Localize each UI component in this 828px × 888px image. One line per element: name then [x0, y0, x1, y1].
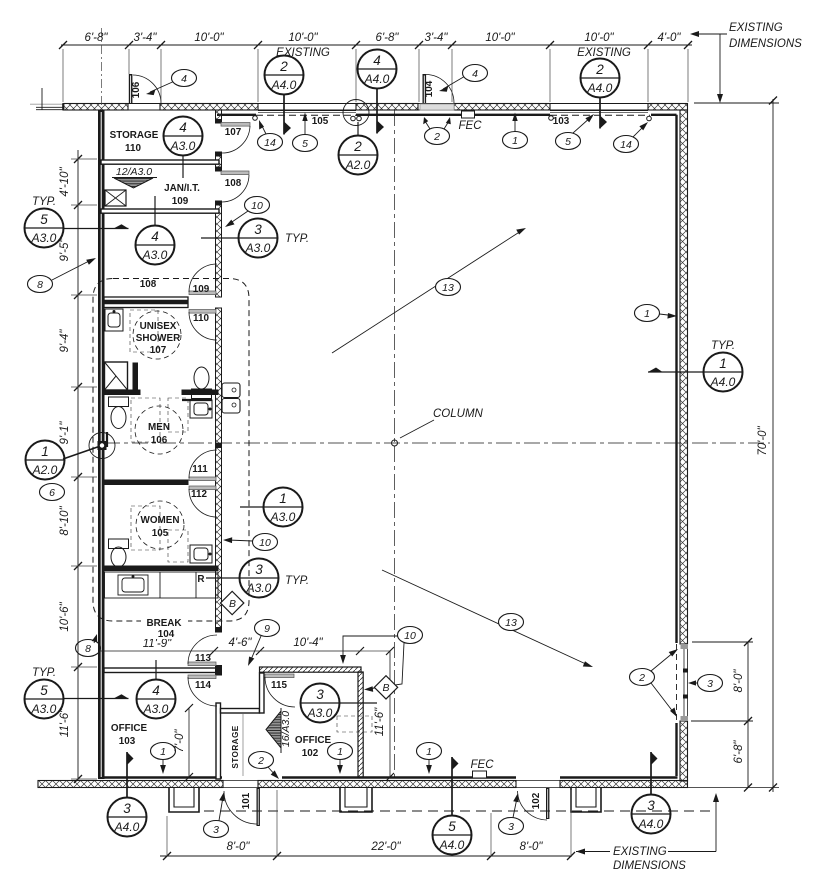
callout 3/A3.0 hallway typ	[201, 219, 309, 258]
top wall existing: outline lines full width	[63, 103, 688, 105]
centerline vertical through column	[394, 110, 396, 779]
wall women/break	[104, 566, 218, 571]
top dimension ticks	[59, 41, 692, 49]
left dimension line	[77, 150, 79, 780]
svg-text:109: 109	[172, 196, 189, 207]
svg-text:A4.0: A4.0	[710, 375, 736, 389]
svg-text:4'-0": 4'-0"	[658, 32, 682, 44]
svg-text:10'-0": 10'-0"	[194, 32, 224, 44]
callout 4/A3.0 jan	[136, 196, 175, 265]
svg-text:TYP.: TYP.	[32, 196, 56, 208]
svg-text:107: 107	[150, 345, 167, 356]
office102 east wall (existing)	[358, 672, 363, 777]
svg-text:2: 2	[638, 672, 645, 684]
men urinal screen	[106, 432, 108, 447]
svg-text:8'-0": 8'-0"	[733, 669, 745, 693]
svg-text:102: 102	[531, 792, 542, 809]
office102 north wall (existing, lintel over door 115)	[260, 667, 362, 672]
interior dims: 11'-9 / 4'-6 / 10'-4 line	[99, 650, 361, 652]
svg-text:A3.0: A3.0	[246, 581, 272, 595]
door 110 (swings down into shower)	[189, 310, 217, 341]
EWC drinking fountains	[222, 383, 240, 413]
callout 3/A3.0 office102	[301, 684, 378, 723]
svg-text:104: 104	[424, 80, 435, 97]
svg-text:A2.0: A2.0	[32, 463, 58, 477]
keynote 1 office102	[328, 743, 353, 775]
svg-text:4: 4	[472, 68, 478, 80]
svg-text:1: 1	[426, 746, 432, 758]
svg-text:A4.0: A4.0	[439, 838, 465, 852]
svg-text:106: 106	[151, 435, 168, 446]
break counter with sink	[105, 572, 219, 598]
svg-text:UNISEX: UNISEX	[140, 321, 177, 332]
svg-text:BREAK: BREAK	[146, 618, 182, 629]
women sink	[190, 545, 212, 563]
svg-text:10'-0": 10'-0"	[485, 32, 515, 44]
svg-text:A3.0: A3.0	[31, 231, 57, 245]
svg-text:8: 8	[37, 279, 43, 291]
keynote 8 lower left wall	[76, 634, 101, 657]
svg-text:FEC: FEC	[459, 120, 483, 132]
svg-text:5: 5	[40, 683, 48, 698]
elevation marker 12/A3.0	[112, 166, 157, 188]
nook shelf line	[242, 714, 244, 776]
svg-text:9'-5": 9'-5"	[59, 238, 71, 262]
svg-text:4: 4	[179, 120, 187, 135]
svg-text:R: R	[197, 574, 204, 585]
svg-text:14: 14	[264, 137, 276, 149]
top dimension texts	[85, 32, 682, 59]
callout 3/A3.0 break typ	[206, 559, 309, 598]
svg-text:115: 115	[271, 680, 287, 691]
keynote 2 nook	[249, 752, 280, 780]
svg-text:10'-6": 10'-6"	[59, 601, 71, 631]
svg-text:TYP.: TYP.	[285, 575, 309, 587]
svg-text:A3.0: A3.0	[307, 706, 333, 720]
svg-text:14: 14	[620, 139, 632, 151]
svg-text:11'-6": 11'-6"	[374, 707, 386, 736]
svg-text:3: 3	[213, 824, 219, 836]
svg-text:OFFICE: OFFICE	[111, 723, 148, 734]
svg-text:8'-0": 8'-0"	[520, 841, 544, 853]
wall break/office103 (doors 113/114)	[104, 666, 222, 676]
callout 5/A4.0 bottom middle	[433, 757, 472, 855]
pilaster right	[571, 788, 601, 812]
svg-text:2: 2	[595, 62, 604, 77]
office 103 dim 7'-0"	[188, 708, 190, 778]
svg-text:1: 1	[337, 746, 343, 758]
svg-text:EXISTING: EXISTING	[729, 22, 783, 34]
svg-text:4: 4	[373, 53, 381, 68]
svg-text:4: 4	[181, 73, 187, 85]
svg-text:22'-0": 22'-0"	[370, 841, 401, 853]
door 104 (top wall, swings out)	[420, 74, 454, 110]
office 102 dim 11'-6"	[344, 651, 390, 778]
svg-text:1: 1	[279, 491, 287, 506]
svg-text:A4.0: A4.0	[587, 81, 613, 95]
svg-text:TYP.: TYP.	[32, 667, 56, 679]
svg-text:A3.0: A3.0	[143, 702, 169, 716]
wall hallway/shower (plumbing wall)	[104, 297, 188, 308]
svg-text:6'-8": 6'-8"	[733, 740, 745, 764]
svg-text:111: 111	[192, 464, 208, 475]
svg-text:1: 1	[512, 135, 518, 147]
svg-text:5: 5	[448, 819, 456, 834]
svg-text:A3.0: A3.0	[245, 241, 271, 255]
svg-text:WOMEN: WOMEN	[141, 515, 180, 526]
callout 2/A4.0 top right	[581, 59, 620, 129]
keynote 3 right opening	[688, 675, 723, 692]
svg-text:8: 8	[85, 643, 91, 655]
svg-text:4'-6": 4'-6"	[229, 637, 253, 649]
right opening dimensions 8'-0 / 6'-8	[691, 642, 753, 788]
svg-text:108: 108	[140, 279, 157, 290]
toilet block east wall (existing hatched)	[215, 110, 222, 632]
svg-text:STORAGE: STORAGE	[110, 130, 159, 141]
svg-text:104: 104	[158, 629, 175, 640]
svg-text:TYP.: TYP.	[285, 233, 309, 245]
storage nook north wall	[221, 709, 260, 714]
svg-text:1: 1	[644, 308, 650, 320]
door 101 (bottom wall, swings out)	[224, 788, 260, 826]
svg-text:70'-0": 70'-0"	[757, 425, 769, 455]
svg-text:9: 9	[264, 623, 270, 635]
svg-text:3: 3	[647, 798, 655, 813]
callout 5/A3.0 left lower typ	[25, 667, 129, 719]
bottom dimension line	[160, 855, 572, 857]
shower room toilet	[182, 367, 212, 400]
right 70 ft dimension	[688, 99, 779, 792]
bottom extension lines	[167, 790, 571, 856]
svg-text:DIMENSIONS: DIMENSIONS	[729, 38, 802, 50]
svg-text:109: 109	[193, 284, 210, 295]
svg-text:A4.0: A4.0	[638, 817, 664, 831]
keynote 4 door104	[439, 65, 488, 92]
svg-text:OFFICE: OFFICE	[295, 735, 332, 746]
keynote 4 door106	[146, 70, 197, 96]
svg-text:3: 3	[508, 821, 514, 833]
FEC top	[459, 111, 483, 132]
svg-text:EXISTING: EXISTING	[276, 47, 330, 59]
door 108	[221, 171, 249, 202]
callout 2/A4.0 top	[265, 56, 304, 135]
dashed maneuvering circles	[133, 311, 184, 549]
svg-text:106: 106	[131, 81, 142, 98]
callout 4/A4.0 top	[358, 50, 397, 134]
door 113 (swings up into break)	[188, 635, 217, 666]
centerline horizontal through column	[104, 442, 770, 444]
men toilet	[109, 397, 129, 429]
svg-text:13: 13	[442, 282, 454, 294]
storefront 105 glazing	[253, 111, 362, 121]
svg-text:112: 112	[191, 489, 207, 500]
wall shower/men partial	[104, 390, 218, 395]
svg-text:5: 5	[302, 138, 308, 150]
wall men/women	[104, 480, 188, 485]
callout 3/A4.0 bottom left	[108, 752, 147, 837]
svg-text:6'-8": 6'-8"	[376, 32, 400, 44]
svg-text:103: 103	[553, 116, 570, 127]
right wall opening (existing storefront)	[677, 644, 689, 721]
svg-text:A3.0: A3.0	[170, 139, 196, 153]
keynote 1 office103	[151, 743, 176, 775]
keynote 8 upper left wall	[28, 258, 97, 293]
office102 west wall	[260, 673, 265, 713]
svg-text:3: 3	[316, 687, 324, 702]
door 112 (swings down into women)	[189, 486, 217, 517]
svg-text:10: 10	[251, 200, 263, 212]
interior face thick line along top wall	[98, 115, 678, 778]
FEC bottom	[471, 759, 495, 778]
left dimension texts (rotated)	[59, 166, 71, 737]
pilaster middle	[340, 788, 372, 812]
svg-text:110: 110	[125, 143, 141, 154]
svg-text:3: 3	[123, 801, 131, 816]
svg-text:A3.0: A3.0	[270, 510, 296, 524]
keynote 3 door102	[499, 793, 524, 835]
svg-text:MEN: MEN	[148, 422, 170, 433]
keynote 2 right opening	[630, 649, 679, 717]
svg-text:10'-0": 10'-0"	[584, 32, 614, 44]
svg-text:A4.0: A4.0	[271, 78, 297, 92]
keynote 9 vestibule	[248, 620, 280, 667]
left extension lines	[71, 159, 97, 779]
svg-text:A2.0: A2.0	[345, 158, 371, 172]
column symbol	[392, 440, 398, 446]
svg-text:A3.0: A3.0	[142, 248, 168, 262]
svg-text:2: 2	[353, 139, 362, 154]
svg-text:3'-4": 3'-4"	[425, 32, 449, 44]
men sink	[190, 400, 212, 418]
door 109 (swings up into hallway)	[189, 264, 217, 295]
svg-text:102: 102	[302, 748, 319, 759]
door 107	[221, 123, 250, 154]
svg-text:6: 6	[49, 487, 55, 499]
svg-text:A3.0: A3.0	[31, 702, 57, 716]
svg-text:DIMENSIONS: DIMENSIONS	[613, 860, 686, 872]
svg-text:5: 5	[565, 136, 571, 148]
left exterior wall (new, solid)	[98, 110, 105, 779]
svg-text:8'-10": 8'-10"	[59, 505, 71, 535]
svg-text:3: 3	[255, 562, 263, 577]
dashed line below bottom wall	[204, 810, 716, 812]
svg-text:12/A3.0: 12/A3.0	[116, 166, 152, 178]
diamond B break	[220, 591, 243, 614]
svg-text:7'-0": 7'-0"	[174, 729, 186, 753]
svg-text:9'-1": 9'-1"	[59, 421, 71, 445]
svg-text:EXISTING: EXISTING	[613, 846, 667, 858]
top extension lines	[63, 28, 688, 109]
svg-text:2: 2	[279, 59, 288, 74]
callout 1/A3.0	[240, 488, 303, 527]
keynote 13 upper arrow	[332, 228, 526, 353]
svg-text:10'-0": 10'-0"	[288, 32, 318, 44]
callout 4/A3.0 storage	[164, 117, 203, 179]
keynote 1 storefront103	[503, 113, 528, 149]
callout 1/A4.0 right typ	[648, 340, 743, 392]
svg-text:A4.0: A4.0	[364, 72, 390, 86]
right exterior wall (existing, hatched)	[680, 110, 688, 781]
jan mop sink	[105, 190, 126, 206]
svg-text:FEC: FEC	[471, 759, 495, 771]
svg-text:10: 10	[259, 537, 271, 549]
svg-text:107: 107	[225, 127, 242, 138]
svg-text:4: 4	[152, 683, 160, 698]
keynote 13 lower arrow	[382, 570, 593, 667]
keynote 1 bottom wall	[417, 743, 442, 775]
callout 3/A4.0 bottom right	[632, 752, 671, 834]
existing dimensions note bottom right	[576, 793, 719, 872]
svg-text:COLUMN: COLUMN	[433, 408, 484, 420]
svg-text:16/A3.0: 16/A3.0	[280, 711, 292, 747]
svg-text:TYP.: TYP.	[711, 340, 735, 352]
keynote 10 women wall	[223, 534, 278, 551]
keynote 3 door101	[204, 792, 229, 838]
keynote 1 right wall	[635, 305, 678, 322]
keynote 14 storefront105	[258, 120, 283, 151]
svg-text:10'-4": 10'-4"	[293, 637, 323, 649]
top dimension line	[61, 44, 692, 46]
svg-text:11'-6": 11'-6"	[59, 708, 71, 737]
svg-text:5: 5	[40, 212, 48, 227]
svg-text:6'-8": 6'-8"	[85, 32, 109, 44]
keynote 10 hallway	[225, 197, 270, 228]
svg-text:STORAGE: STORAGE	[231, 725, 240, 768]
keynote 5 storefront103	[556, 114, 595, 150]
dashed alternate-scope boundary	[93, 279, 249, 622]
svg-text:113: 113	[195, 653, 211, 664]
svg-text:1: 1	[160, 746, 166, 758]
door 111 (swings up into men)	[189, 450, 217, 481]
svg-text:105: 105	[312, 116, 329, 127]
callout 1/A2.0 left column detail	[26, 433, 116, 480]
keynote 14 storefront103	[614, 122, 649, 153]
svg-text:1: 1	[719, 356, 727, 371]
office103 east wall	[216, 703, 221, 779]
svg-text:EXISTING: EXISTING	[577, 47, 631, 59]
svg-text:4: 4	[151, 229, 159, 244]
wall below storage 110	[101, 160, 219, 164]
COLUMN label	[400, 408, 484, 438]
pilaster left	[169, 788, 199, 812]
svg-text:105: 105	[152, 528, 169, 539]
svg-text:10: 10	[404, 630, 416, 642]
door101 / door102 opening sill lines	[223, 781, 560, 788]
shower room sink (top-left)	[105, 309, 123, 331]
svg-text:B: B	[382, 682, 389, 694]
keynote 2 door104 jambs	[423, 117, 451, 145]
svg-text:2: 2	[433, 131, 440, 143]
svg-text:3: 3	[254, 222, 262, 237]
callout 2/A2.0	[339, 100, 378, 175]
svg-text:8'-0": 8'-0"	[227, 841, 251, 853]
svg-text:A4.0: A4.0	[114, 820, 140, 834]
keynote 6 left	[40, 484, 65, 501]
keynote 10 office102	[340, 627, 422, 692]
svg-text:B: B	[229, 598, 236, 610]
svg-text:101: 101	[241, 792, 252, 809]
svg-text:9'-4": 9'-4"	[59, 329, 71, 353]
svg-text:1: 1	[41, 444, 49, 459]
callout 5/A3.0 left typ	[25, 196, 129, 248]
elevation marker 16/A3.0	[266, 708, 292, 753]
door 106 (top wall, swings out)	[129, 74, 161, 104]
svg-text:13: 13	[505, 617, 517, 629]
storefront 103 glazing	[549, 111, 652, 121]
svg-text:3'-4": 3'-4"	[134, 32, 158, 44]
door 115 (swings down into office 102)	[265, 674, 295, 707]
door 102 (bottom wall, swings out)	[518, 788, 550, 820]
svg-text:4'-10": 4'-10"	[59, 166, 71, 196]
left dimension ticks	[74, 155, 82, 783]
top wall hatched segments	[63, 104, 688, 111]
svg-text:3: 3	[707, 678, 713, 690]
svg-text:108: 108	[225, 178, 242, 189]
svg-text:114: 114	[195, 680, 211, 691]
diamond B office102	[374, 676, 397, 699]
shower stall with pan	[105, 362, 138, 390]
wall below jan 109	[101, 209, 219, 213]
svg-text:SHOWER: SHOWER	[136, 333, 180, 344]
door 114 (swings down into office 103)	[188, 675, 217, 706]
dashed clearance boxes	[130, 310, 372, 732]
women toilet	[109, 539, 129, 567]
svg-text:2: 2	[257, 755, 264, 767]
svg-text:JAN/I.T.: JAN/I.T.	[164, 183, 200, 194]
bottom wall existing hatched	[38, 781, 688, 788]
svg-text:110: 110	[193, 313, 209, 324]
keynote 5 storefront105	[293, 113, 318, 152]
svg-text:103: 103	[119, 736, 136, 747]
existing dimensions note top right	[690, 22, 802, 103]
callout 4/A3.0 office103	[137, 660, 176, 719]
